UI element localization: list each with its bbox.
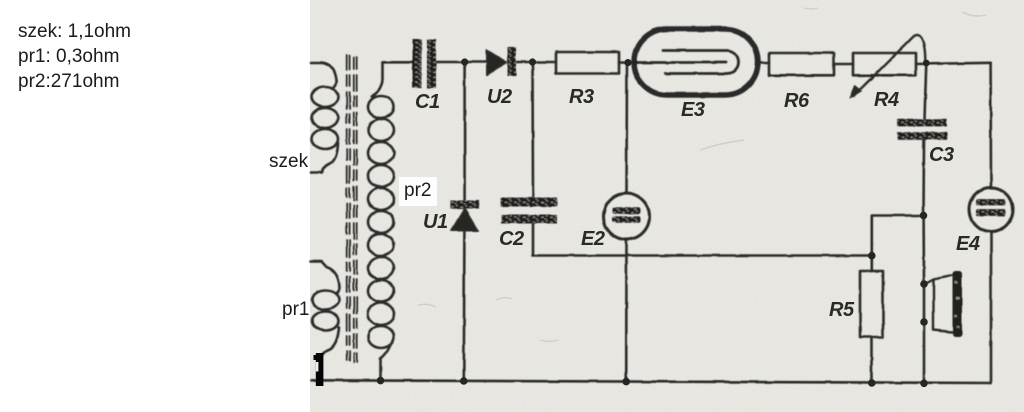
svg-text:C3: C3: [929, 144, 954, 166]
svg-text:C2: C2: [499, 228, 524, 250]
svg-text:E3: E3: [681, 99, 705, 121]
svg-text:E2: E2: [581, 228, 605, 250]
svg-text:C1: C1: [415, 91, 440, 113]
svg-text:U2: U2: [487, 86, 512, 108]
svg-text:U1: U1: [423, 211, 448, 233]
svg-text:E4: E4: [956, 233, 980, 255]
svg-text:R4: R4: [874, 89, 899, 111]
svg-text:R6: R6: [784, 90, 810, 112]
svg-text:R5: R5: [829, 299, 855, 321]
svg-text:R3: R3: [569, 86, 594, 108]
